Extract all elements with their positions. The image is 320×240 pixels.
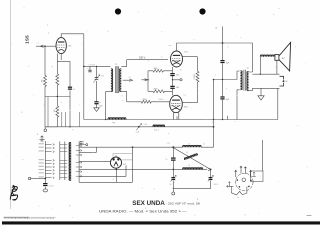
svg-text:30: 30 xyxy=(180,69,182,71)
IF transformer T1 core xyxy=(115,67,118,93)
node rail B x213 xyxy=(213,126,215,128)
wire pickup terminal xyxy=(31,178,46,180)
tube V1 bottom pin stub xyxy=(60,54,62,60)
label C4 xyxy=(88,69,90,71)
switch box arrow xyxy=(252,172,256,176)
svg-text:3-30: 3-30 xyxy=(101,76,104,78)
wire battery left lead xyxy=(227,185,234,187)
capacitor C6 xyxy=(170,86,174,88)
output transformer T2 right coil xyxy=(247,72,249,91)
label speck d xyxy=(144,124,147,126)
wire band switch diagonal xyxy=(173,148,210,170)
resistor R4 xyxy=(153,69,163,72)
node rail A x222 xyxy=(222,119,223,120)
socket V4 pin blob 2 xyxy=(117,158,119,160)
harness vertical right xyxy=(132,147,134,182)
wire T1 top left xyxy=(84,65,111,67)
wire chain left vertical xyxy=(147,71,149,92)
label a.s. xyxy=(169,45,173,47)
speaker voice coil xyxy=(260,55,275,57)
oscillator coil L4 xyxy=(183,168,203,170)
node y79 x222 xyxy=(222,79,223,80)
svg-text:a.s.: a.s. xyxy=(169,45,173,47)
label speck e xyxy=(167,143,170,145)
svg-text:100: 100 xyxy=(176,87,179,89)
wire cap C12 stem xyxy=(44,183,46,189)
arrowhead AVC xyxy=(145,79,148,81)
battery socket circle xyxy=(236,173,254,191)
rail B coil xyxy=(153,125,165,127)
title suffix xyxy=(166,202,201,206)
node trimmer top xyxy=(96,66,97,67)
node y79 x213 xyxy=(213,79,215,81)
harness row B xyxy=(79,147,96,152)
wire cap branch top xyxy=(57,61,70,63)
wire vertical x277 xyxy=(277,88,279,119)
wire grid input V1 xyxy=(36,45,56,47)
label C5 xyxy=(176,74,179,76)
wire vertical x213 xyxy=(213,80,215,148)
label speck c xyxy=(129,77,131,79)
wire osc bottom rail xyxy=(173,187,211,189)
label V3 value xyxy=(184,107,189,109)
label rail A coil xyxy=(112,122,116,124)
IF transformer T1 left coil xyxy=(111,69,113,92)
resistor R1 xyxy=(44,76,47,87)
tube socket V4 xyxy=(110,157,121,168)
svg-text:1: 1 xyxy=(215,75,216,77)
label C11 xyxy=(214,184,217,186)
label R3 xyxy=(194,73,196,79)
resistor R3 xyxy=(196,71,199,82)
output jack xyxy=(280,76,284,86)
wire T2 sec bottom xyxy=(249,88,253,90)
label V2 value xyxy=(184,51,189,53)
socket V4 drop xyxy=(115,168,117,182)
svg-text:C15: C15 xyxy=(167,143,170,145)
tube V1 xyxy=(56,38,66,54)
signature mark xyxy=(10,185,17,200)
trimmer arrow C11 xyxy=(208,175,214,181)
svg-text:L3: L3 xyxy=(186,152,188,154)
label 250 V xyxy=(139,57,146,60)
rail A coil xyxy=(108,118,126,120)
label speck g xyxy=(180,69,182,71)
label speck j xyxy=(48,142,49,144)
imprint dots xyxy=(4,217,55,220)
harness row A xyxy=(79,146,183,148)
harness long rail xyxy=(79,168,207,170)
wire plate column x197 xyxy=(197,57,199,103)
wire L2 leads xyxy=(201,146,213,148)
wire top rail y43 xyxy=(177,42,253,44)
label trimmer rail B xyxy=(136,131,140,134)
battery pin arrow 4 xyxy=(250,170,252,177)
label A.P. xyxy=(282,57,286,60)
label C3 val xyxy=(99,105,103,107)
antenna mark xyxy=(39,136,44,142)
battery plug key xyxy=(238,191,241,193)
svg-text:L4: L4 xyxy=(188,165,190,167)
IF transformer T1 right coil xyxy=(119,69,121,92)
wire voice coil drop right xyxy=(276,60,278,74)
harness terminal circle xyxy=(86,144,88,146)
battery lead up arrow xyxy=(228,182,230,187)
label L3 xyxy=(186,152,188,154)
socket V4 shield box xyxy=(113,154,133,160)
wire terminal stub xyxy=(44,127,46,129)
speaker cone xyxy=(279,42,291,71)
label R1 xyxy=(42,79,44,82)
svg-text:2MΩ: 2MΩ xyxy=(143,99,148,101)
wire V3 cathode pins xyxy=(173,112,178,120)
oscillator coil L2 xyxy=(183,146,202,148)
label speck o xyxy=(215,27,218,30)
title SEX UNDA xyxy=(132,200,165,207)
label C10 xyxy=(170,184,172,186)
switch contact rows xyxy=(45,145,51,178)
wire box bottom y88 xyxy=(253,87,280,89)
harness row C xyxy=(79,161,110,163)
label speck l xyxy=(254,168,255,170)
capacitor C5 xyxy=(170,74,174,76)
socket V4 pin blob 1 xyxy=(112,158,114,160)
node chain xyxy=(172,79,173,80)
rail A tick right xyxy=(227,116,229,120)
label C12 xyxy=(49,185,54,187)
socket V4 top tick xyxy=(115,155,117,157)
svg-text:C4 5000: C4 5000 xyxy=(89,65,95,67)
battery pin arrow 2 xyxy=(244,167,246,174)
svg-text:T2: T2 xyxy=(247,68,249,70)
wire T1 bottom left xyxy=(106,92,111,120)
node T1 top feed xyxy=(83,66,85,68)
label speck m xyxy=(122,95,124,97)
svg-text:250 V.: 250 V. xyxy=(139,57,146,60)
svg-text:50000: 50000 xyxy=(194,73,196,79)
switch right arrows xyxy=(76,145,82,177)
svg-text:2MΩ: 2MΩ xyxy=(154,88,159,90)
svg-text:L2: L2 xyxy=(188,144,190,146)
label speck V1 input xyxy=(37,43,40,45)
wire AVC arrow xyxy=(142,79,148,81)
svg-text:1: 1 xyxy=(48,142,49,144)
svg-text:3-30: 3-30 xyxy=(144,124,147,126)
label C6 xyxy=(176,87,179,89)
svg-text:50: 50 xyxy=(129,77,131,79)
svg-text:C2 50: C2 50 xyxy=(49,185,54,187)
label speck h xyxy=(184,95,186,97)
wire V1 plate to top rail xyxy=(61,34,84,38)
label L4 xyxy=(188,165,190,167)
wire V3 grid line xyxy=(127,101,170,103)
wire node row y95 xyxy=(45,96,70,98)
label speck n xyxy=(159,99,164,101)
wire gnd stem right xyxy=(260,88,262,96)
svg-text:- 202 V5F Nº mod. 58: - 202 V5F Nº mod. 58 xyxy=(166,202,201,206)
arrowhead harness rail xyxy=(208,168,211,170)
switch box on socket xyxy=(251,171,264,182)
chassis ground xyxy=(43,189,48,192)
ground under C3 xyxy=(94,108,100,112)
svg-text:50: 50 xyxy=(170,184,172,186)
wire T1 top right xyxy=(121,60,126,67)
switch contact arrows xyxy=(53,144,55,179)
capacitor C4 stub xyxy=(88,66,91,71)
speaker neck xyxy=(275,55,279,61)
capacitor C8 electrolytic xyxy=(220,97,224,99)
socket V4 center xyxy=(115,163,116,164)
battery pin dot a xyxy=(239,186,241,188)
svg-text:imp. 2: imp. 2 xyxy=(154,130,159,132)
label 1S5 rotated xyxy=(25,35,30,44)
ground oscillator xyxy=(172,192,175,195)
svg-text:2M: 2M xyxy=(42,79,44,82)
battery pin dot d xyxy=(250,180,252,182)
svg-text:C.A.: C.A. xyxy=(136,131,140,134)
wire vertical x222 caps xyxy=(222,27,224,120)
node AVC xyxy=(147,79,148,80)
label speck a xyxy=(89,65,95,67)
wire trimmer column xyxy=(96,66,98,101)
svg-text:500: 500 xyxy=(214,184,217,186)
wire V3 plate xyxy=(182,102,197,104)
label T1 xyxy=(115,64,118,66)
output transformer T2 core xyxy=(244,70,245,91)
harness bus left xyxy=(78,142,80,183)
wire osc right vertical xyxy=(210,169,212,188)
wire cap branch xyxy=(69,62,71,97)
wire box top y74 xyxy=(253,73,280,75)
node top rail xyxy=(222,42,224,44)
label jack M xyxy=(286,81,288,83)
wire voice coil drop left xyxy=(259,57,261,74)
node circle grid xyxy=(180,79,182,81)
box vertical d xyxy=(79,112,81,127)
switch tap rows xyxy=(60,145,67,178)
svg-text:0,1: 0,1 xyxy=(184,95,186,97)
harness row E xyxy=(79,166,126,177)
capacitor C11 trimmer xyxy=(209,178,213,180)
label C9 xyxy=(166,159,168,161)
harness terminal dot a xyxy=(80,141,81,142)
node diag end xyxy=(210,169,212,171)
oscillator coil L3 diagonal xyxy=(184,153,198,159)
antenna coil L1 xyxy=(69,143,71,181)
arrowhead T1 tap xyxy=(129,79,132,81)
switch bus left xyxy=(44,141,46,183)
resistor R5 xyxy=(153,90,165,93)
node osc rail cross xyxy=(173,169,175,171)
node rail B trimmer xyxy=(138,126,140,128)
trimmer arrow C2 xyxy=(93,75,99,83)
wire branch to rail B xyxy=(69,97,71,127)
node rail A x105 xyxy=(105,119,106,120)
label C7 xyxy=(226,63,230,65)
label rail B coil xyxy=(154,130,159,132)
wire osc left vertical xyxy=(172,147,174,188)
svg-text:2c: 2c xyxy=(166,159,168,161)
switch bus mid 1 xyxy=(59,142,61,181)
wire V2 top riser xyxy=(176,43,178,51)
resistor R6 xyxy=(141,100,151,103)
capacitor C12 xyxy=(43,184,47,186)
svg-text:A.P.: A.P. xyxy=(282,57,286,60)
switch bus mid 2 xyxy=(64,142,66,181)
wire rail B y126.8 xyxy=(45,126,214,128)
capacitor C3 electrolytic xyxy=(94,102,98,104)
ground output xyxy=(258,96,264,100)
trimmer arrow rail B xyxy=(136,124,141,131)
node socket drop xyxy=(116,169,118,171)
wire terminal link xyxy=(45,126,57,128)
harness terminal stub xyxy=(79,144,86,146)
battery pin arrow 1 xyxy=(240,166,242,173)
label L2 xyxy=(188,144,190,146)
output transformer T2 left coil xyxy=(240,71,242,90)
label speck f xyxy=(203,144,205,146)
wire T2 primary left xyxy=(237,71,240,120)
label C3 plus xyxy=(99,101,101,104)
page number mark xyxy=(307,215,312,217)
node vc left xyxy=(260,74,261,75)
svg-text:3MΩ: 3MΩ xyxy=(154,68,159,70)
node junction V1 input xyxy=(44,45,46,47)
switch row labels xyxy=(39,143,44,177)
capacitor C2 trimmer xyxy=(95,78,99,80)
bottom rule xyxy=(2,221,320,224)
wire C3 bottom xyxy=(96,104,98,108)
battery plug body xyxy=(231,186,247,195)
resistor R2a xyxy=(56,74,59,85)
title superscript xyxy=(197,199,199,201)
registration hole left xyxy=(115,8,121,14)
wire grid res top xyxy=(148,70,173,72)
label speck i xyxy=(215,75,216,77)
subtitle line xyxy=(99,210,187,214)
label C8 xyxy=(226,99,230,101)
box vertical a xyxy=(47,97,49,127)
wire T1 bottom right xyxy=(121,92,126,102)
label R5 xyxy=(154,88,159,90)
wire battery drop xyxy=(262,140,264,171)
battery pin arrow 3 xyxy=(235,170,237,177)
svg-text:SEX UNDA: SEX UNDA xyxy=(132,200,165,207)
svg-text:1S5: 1S5 xyxy=(25,35,30,44)
battery socket center xyxy=(242,178,246,182)
node y95 left xyxy=(57,96,58,97)
tube V3 xyxy=(170,95,183,112)
svg-text:UNDA RADIO. — Mod. « Sex Unda: UNDA RADIO. — Mod. « Sex Unda 952 » — xyxy=(99,210,187,214)
capacitor C9 padder xyxy=(171,158,176,160)
label T2 xyxy=(247,68,249,70)
label C1 xyxy=(73,89,76,91)
harness row F xyxy=(79,181,132,183)
registration hole right xyxy=(199,8,205,14)
wire V2 plate xyxy=(183,56,198,58)
node rail A x213 xyxy=(213,119,214,120)
wire T2 sec top xyxy=(249,43,253,72)
battery pin dot b xyxy=(248,186,250,188)
harness terminal dot b xyxy=(80,143,81,144)
wire 250V rail xyxy=(127,59,168,61)
box vertical c xyxy=(65,112,67,127)
wire gnd stem osc xyxy=(172,188,174,192)
arrowhead into V1 xyxy=(40,45,43,47)
label battery xyxy=(237,197,239,199)
wire T1 tap arrow xyxy=(123,79,131,81)
trimmer arrow C10 xyxy=(171,175,177,181)
wire grid res bottom xyxy=(148,90,173,92)
wire grid chain xyxy=(172,67,174,95)
socket V4 filament V xyxy=(114,162,118,166)
box vertical b xyxy=(61,112,63,127)
wire vertical x84 xyxy=(83,34,85,120)
svg-text:50000: 50000 xyxy=(159,99,164,101)
label V4 xyxy=(123,164,126,166)
battery pin dot c xyxy=(237,179,239,181)
node pickup xyxy=(44,178,46,180)
terminal circle xyxy=(44,129,47,132)
left page margin rule xyxy=(10,0,12,209)
antenna coil L1 line xyxy=(70,143,72,181)
rail A tick mid xyxy=(176,116,178,119)
output jack dot xyxy=(283,80,285,82)
resistor R2b xyxy=(56,106,59,117)
wire node stub xyxy=(173,79,180,81)
capacitor C10 trimmer xyxy=(171,178,175,180)
label R2 xyxy=(54,109,56,112)
label speck b xyxy=(101,76,104,78)
label speck k xyxy=(37,133,39,136)
wire V1 second column xyxy=(56,53,58,126)
imprint micro text xyxy=(4,216,57,218)
wire y79.5 link xyxy=(214,79,238,81)
wire V1 left column xyxy=(44,46,46,127)
node osc top xyxy=(172,146,174,148)
capacitor C1 xyxy=(68,87,72,89)
svg-text:1M: 1M xyxy=(54,109,56,112)
harness terminal ticks xyxy=(79,142,83,144)
capacitor C7 electrolytic xyxy=(220,61,224,63)
svg-text:L5: L5 xyxy=(203,144,205,146)
label V1 value xyxy=(68,45,73,47)
label R6 xyxy=(143,99,148,101)
svg-text:100: 100 xyxy=(176,74,179,76)
svg-text:V21: V21 xyxy=(123,164,126,166)
pickup terminal circle xyxy=(28,177,30,179)
svg-text:C4: C4 xyxy=(88,69,90,71)
label R4 xyxy=(154,68,159,70)
node harness vert xyxy=(132,146,134,148)
wire rail A y119.5 xyxy=(84,119,278,121)
node rail B x70 xyxy=(69,126,70,127)
tube V2 xyxy=(171,51,183,67)
